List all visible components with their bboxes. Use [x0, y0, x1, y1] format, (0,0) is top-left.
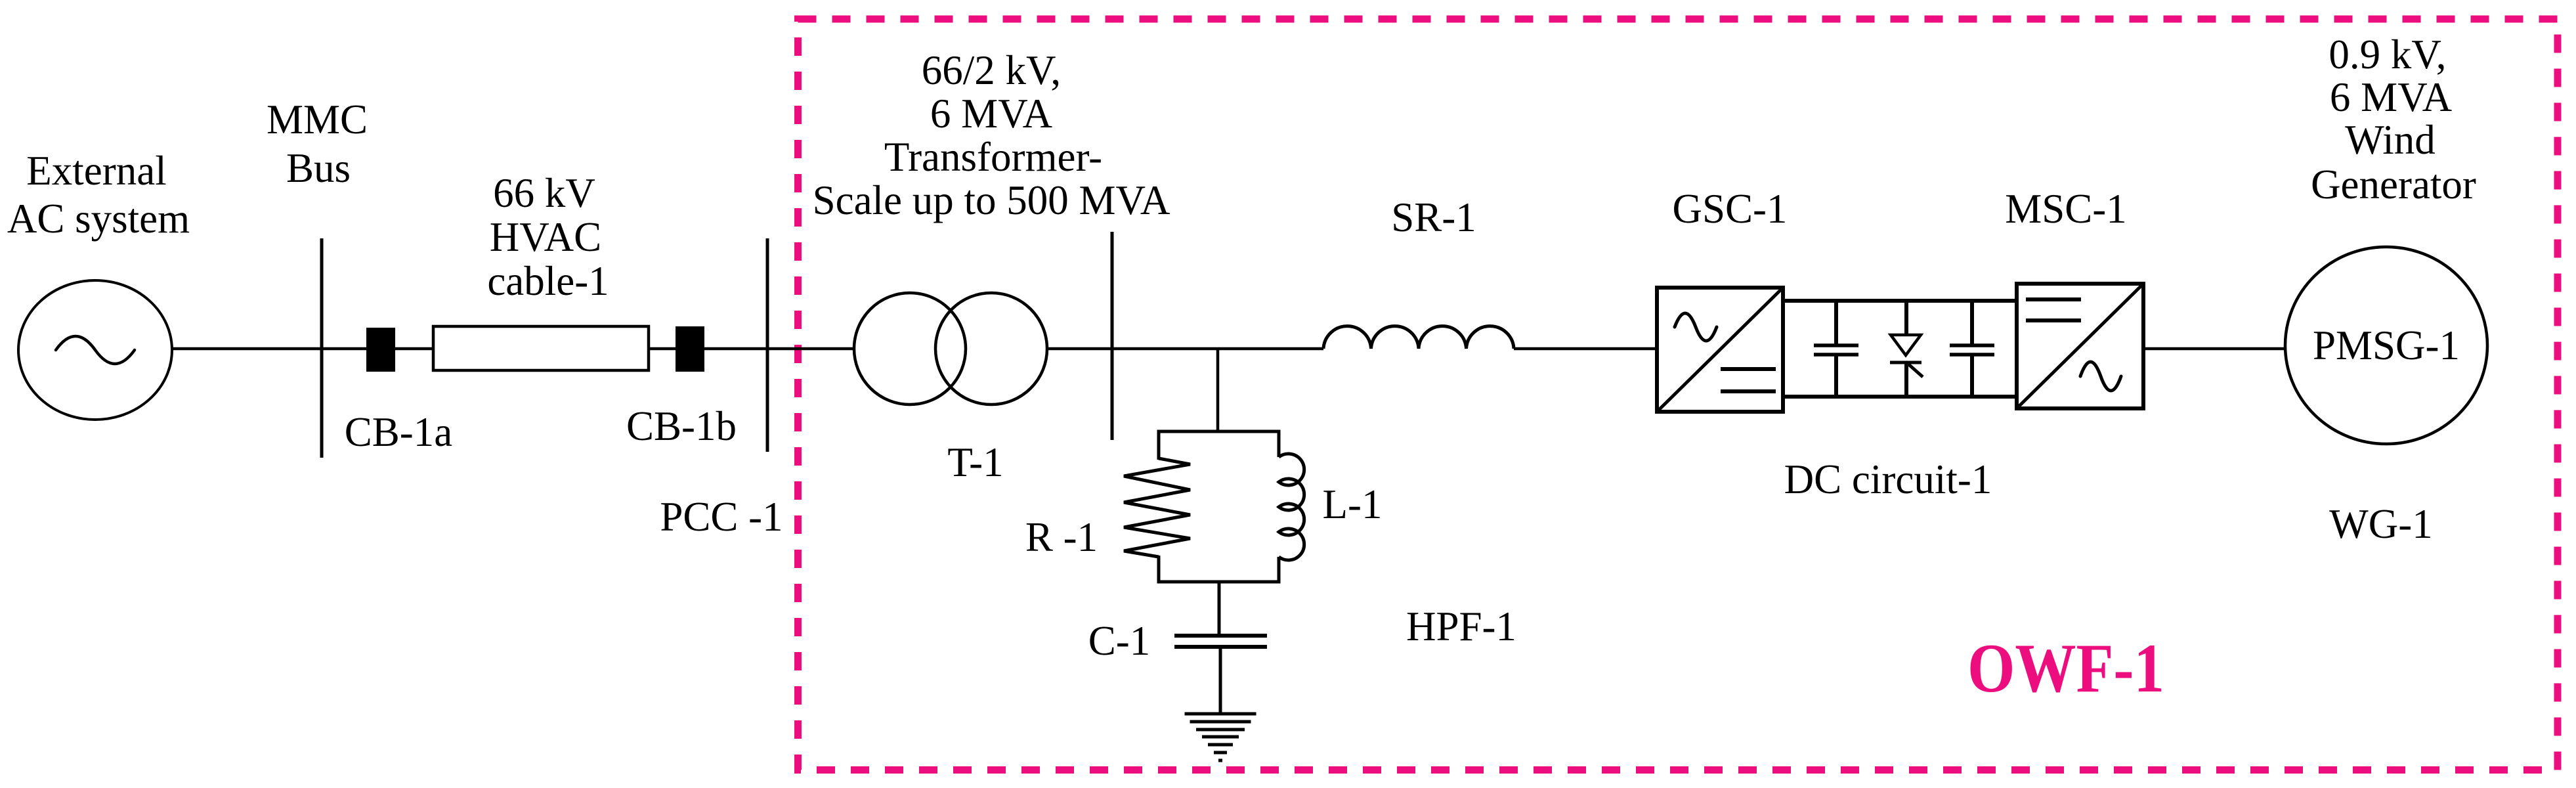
- svg-text:MMC: MMC: [267, 97, 368, 142]
- svg-text:T-1: T-1: [947, 439, 1003, 485]
- AC source G1 (External AC system): [18, 280, 172, 420]
- MMC bus: [320, 238, 324, 458]
- DC link top rail: [1783, 299, 2017, 303]
- svg-text:PCC -1: PCC -1: [660, 494, 783, 540]
- HVAC cable-1 rectangle: [433, 326, 649, 370]
- inductor bottom lead: [1277, 557, 1281, 584]
- GSC-1 sine symbol: [1675, 313, 1717, 341]
- MSC-1 diagonal: [2018, 285, 2142, 407]
- svg-text:L-1: L-1: [1323, 481, 1383, 527]
- svg-text:CB-1b: CB-1b: [626, 403, 737, 449]
- svg-text:0.9 kV,: 0.9 kV,: [2329, 32, 2446, 77]
- svg-text:C-1: C-1: [1088, 618, 1151, 664]
- converter GSC-1 box: [1657, 288, 1783, 412]
- PCC bus: [766, 238, 769, 452]
- svg-text:Transformer-: Transformer-: [884, 134, 1102, 180]
- ground symbol: [1185, 712, 1256, 716]
- svg-text:WG-1: WG-1: [2329, 501, 2432, 547]
- filter bottom bar: [1157, 580, 1281, 584]
- GSC-1 DC bars: [1721, 367, 1776, 371]
- HPF-1 filter top bar: [1157, 430, 1281, 433]
- lead C-1 to ground: [1219, 647, 1222, 714]
- svg-text:66 kV: 66 kV: [493, 170, 595, 216]
- svg-text:SR-1: SR-1: [1391, 194, 1476, 240]
- svg-text:GSC-1: GSC-1: [1672, 186, 1787, 232]
- OWF-1 dashed boundary box: [798, 19, 2558, 770]
- transformer T-1: [854, 293, 966, 405]
- wire CB-1b to transformer: [704, 347, 854, 351]
- svg-text:Generator: Generator: [2311, 162, 2476, 208]
- chopper diode: [1904, 301, 1908, 336]
- wire transformer to SR-1: [1048, 347, 1323, 351]
- svg-text:MSC-1: MSC-1: [2005, 186, 2127, 232]
- capacitor C-1 plates: [1174, 634, 1267, 638]
- DC link bottom rail: [1783, 395, 2017, 399]
- wire MSC-1 to PMSG: [2143, 347, 2286, 351]
- AC source sine symbol: [56, 336, 135, 364]
- svg-text:CB-1a: CB-1a: [345, 409, 453, 455]
- svg-text:R -1: R -1: [1025, 514, 1098, 560]
- junction wire down to HPF-1: [1216, 349, 1220, 433]
- generator PMSG-1 circle: [2285, 247, 2487, 444]
- circuit breaker CB-1a: [366, 328, 395, 372]
- resistor bottom lead: [1157, 556, 1161, 584]
- MSC-1 sine symbol: [2080, 362, 2121, 391]
- filter left lead: [1157, 430, 1161, 460]
- wire CB-1a to cable: [395, 347, 433, 351]
- lead to C-1: [1218, 582, 1221, 636]
- wire AC source to MMC bus: [172, 347, 366, 351]
- svg-text:6 MVA: 6 MVA: [930, 91, 1053, 137]
- DC capacitor 1: [1834, 301, 1838, 345]
- MSC-1 DC bars: [2026, 297, 2081, 301]
- svg-text:OWF-1: OWF-1: [1967, 630, 2164, 707]
- DC capacitor 2: [1970, 301, 1974, 345]
- inductor L-1 top lead: [1277, 430, 1281, 458]
- resistor R-1 zigzag: [1124, 458, 1190, 557]
- converter MSC-1 box: [2017, 284, 2143, 408]
- svg-text:DC circuit-1: DC circuit-1: [1784, 456, 1992, 502]
- svg-text:cable-1: cable-1: [487, 258, 609, 304]
- LV bus: [1111, 232, 1114, 440]
- inductor L-1 coil: [1279, 454, 1304, 560]
- svg-text:External: External: [26, 148, 166, 194]
- svg-text:Bus: Bus: [286, 145, 351, 191]
- GSC-1 diagonal: [1658, 289, 1782, 410]
- svg-text:Wind: Wind: [2345, 117, 2435, 163]
- svg-text:HPF-1: HPF-1: [1406, 603, 1516, 649]
- wire SR-1 to GSC-1: [1514, 347, 1657, 351]
- circuit breaker CB-1b: [676, 326, 704, 372]
- wire cable to CB-1b: [649, 347, 676, 351]
- svg-text:6 MVA: 6 MVA: [2330, 74, 2453, 120]
- svg-text:AC system: AC system: [7, 196, 190, 242]
- series reactor SR-1 coil: [1323, 326, 1514, 349]
- svg-text:66/2 kV,: 66/2 kV,: [922, 47, 1061, 93]
- svg-text:HVAC: HVAC: [490, 214, 601, 260]
- svg-text:Scale up to 500 MVA: Scale up to 500 MVA: [813, 177, 1170, 223]
- svg-text:PMSG-1: PMSG-1: [2313, 322, 2460, 368]
